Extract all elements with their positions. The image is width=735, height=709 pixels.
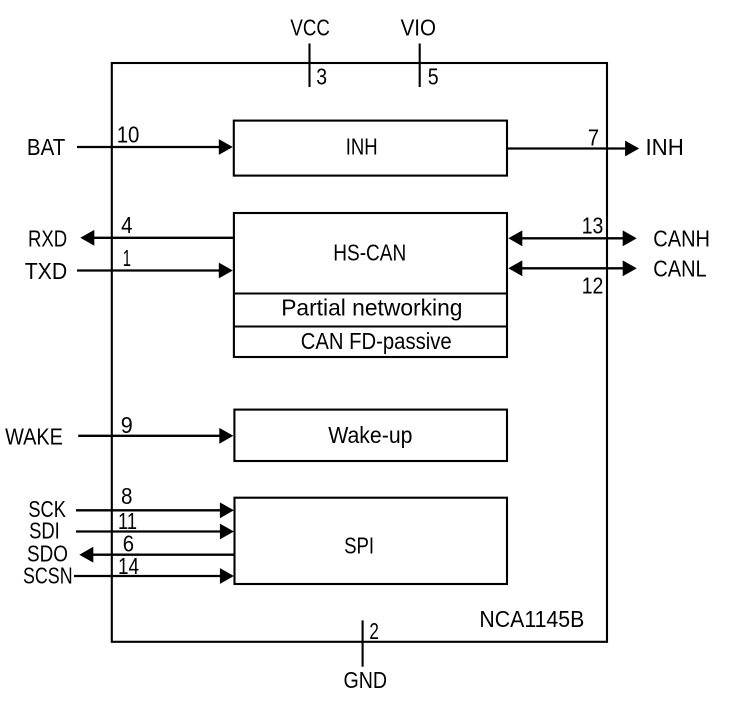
svg-text:HS-CAN: HS-CAN [333, 239, 406, 265]
arrowhead TXD [219, 263, 233, 279]
arrowhead CANH left [508, 230, 522, 246]
block SPI [235, 498, 508, 584]
wire INH output [507, 147, 626, 149]
wire RXD from HS-CAN [94, 237, 234, 239]
svg-text:9: 9 [121, 412, 133, 438]
svg-text:WAKE: WAKE [5, 424, 63, 450]
svg-text:VCC: VCC [290, 14, 330, 40]
svg-text:3: 3 [316, 63, 327, 89]
wire WAKE to Wake-up [78, 435, 220, 437]
arrowhead RXD [80, 230, 94, 246]
wire SCK to SPI [76, 509, 221, 511]
arrowhead into INH [219, 139, 233, 155]
svg-text:13: 13 [582, 212, 604, 238]
divider CAN FD-passive top [234, 325, 507, 327]
block INH [234, 121, 507, 176]
pin VIO tick [419, 44, 421, 88]
svg-text:SCSN: SCSN [23, 563, 73, 589]
svg-text:RXD: RXD [28, 226, 67, 252]
svg-text:INH: INH [646, 134, 684, 160]
svg-text:4: 4 [121, 212, 133, 238]
arrowhead CANL left [508, 260, 522, 276]
wire SDI to SPI [76, 530, 221, 532]
wire SCSN to SPI [74, 575, 221, 577]
wire CANH double arrow [521, 237, 624, 239]
arrowhead CANL right [623, 260, 637, 276]
svg-text:Wake-up: Wake-up [328, 422, 412, 448]
svg-text:CANH: CANH [653, 226, 710, 252]
divider Partial networking top [234, 292, 507, 294]
arrowhead WAKE [219, 428, 233, 444]
chip outline NCA1145B [112, 63, 607, 642]
svg-text:1: 1 [123, 245, 131, 271]
pin VCC tick [308, 44, 310, 88]
wire CANL double arrow [521, 267, 624, 269]
arrowhead SDO [79, 547, 93, 563]
pin GND tick [362, 620, 364, 666]
svg-text:Partial networking: Partial networking [281, 295, 462, 321]
svg-text:8: 8 [121, 483, 133, 509]
svg-text:GND: GND [344, 667, 388, 693]
block Wake-up [234, 410, 507, 461]
wire SDO from SPI [93, 554, 235, 556]
svg-text:SPI: SPI [344, 533, 374, 559]
svg-text:NCA1145B: NCA1145B [479, 606, 584, 632]
svg-text:VIO: VIO [401, 14, 436, 40]
svg-text:7: 7 [588, 125, 599, 151]
svg-text:2: 2 [369, 618, 379, 644]
wire BAT to INH [77, 146, 220, 148]
arrowhead SDI [220, 524, 234, 540]
svg-text:TXD: TXD [25, 258, 67, 284]
svg-text:5: 5 [428, 63, 439, 89]
svg-text:12: 12 [582, 273, 604, 299]
block HS-CAN [234, 213, 507, 357]
svg-text:14: 14 [118, 553, 139, 579]
svg-text:10: 10 [117, 121, 140, 147]
arrowhead SCK [220, 502, 234, 518]
svg-text:BAT: BAT [27, 134, 65, 160]
wire TXD to HS-CAN [77, 269, 220, 271]
svg-text:CAN FD-passive: CAN FD-passive [301, 328, 452, 354]
svg-text:CANL: CANL [653, 256, 707, 282]
arrowhead SCSN [220, 568, 234, 584]
arrowhead INH out [625, 141, 639, 157]
svg-text:INH: INH [346, 134, 378, 160]
arrowhead CANH right [623, 230, 637, 246]
